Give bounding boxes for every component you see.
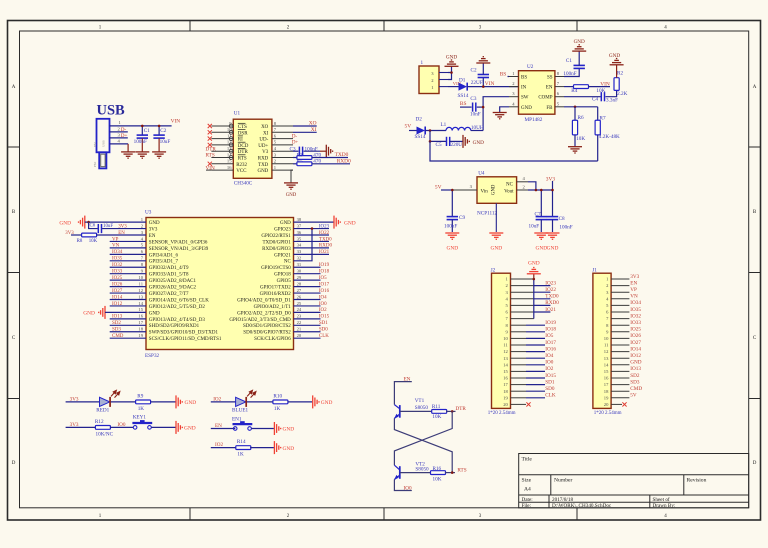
svg-text:L1: L1 [441,122,447,128]
svg-text:GND: GND [321,400,333,406]
svg-text:VIN: VIN [600,81,610,87]
svg-text:GPIO18: GPIO18 [274,273,291,278]
J1 pin 2 [606,283,629,288]
junction (D2/L1/C5) [429,129,432,132]
svg-text:C2: C2 [160,128,166,134]
svg-text:RTS: RTS [457,468,466,474]
svg-text:C1: C1 [566,58,572,64]
svg-text:U1: U1 [234,111,241,117]
wire U1 GND [291,170,293,183]
svg-text:EN: EN [630,280,637,286]
svg-text:15: 15 [604,369,609,374]
svg-text:R4: R4 [571,88,577,94]
capacitor C1 [134,126,151,152]
svg-text:V3: V3 [262,150,269,155]
svg-text:GPIO21: GPIO21 [274,253,291,258]
svg-text:J1: J1 [592,268,597,274]
IC U1 CH340C body [233,111,272,187]
svg-text:35: 35 [297,236,302,241]
svg-text:C8: C8 [559,216,565,222]
svg-text:12: 12 [138,288,143,293]
svg-text:D: D [12,461,16,466]
U3 pin 15 GND [138,307,160,316]
svg-text:R232: R232 [236,163,247,168]
svg-text:21: 21 [297,327,302,332]
svg-text:IO35: IO35 [112,257,123,262]
svg-text:IO25: IO25 [630,327,641,333]
U3 pin 1 GND [141,217,160,226]
svg-text:GND: GND [535,246,547,252]
J2 pin 20 [503,402,526,407]
USB pin 2 D- [110,126,128,133]
svg-text:IO16: IO16 [545,346,556,352]
U3 pin 32 NC [284,256,302,265]
svg-text:Drawn By:: Drawn By: [653,503,676,509]
svg-text:RXD0: RXD0 [337,159,351,165]
no-connect X (U1 pin 10) [208,130,212,134]
svg-text:FB: FB [546,106,553,111]
svg-text:GPIO26/AD2_9/DAC2: GPIO26/AD2_9/DAC2 [149,286,197,291]
ground (C2 power, above) [476,57,490,63]
svg-text:IO2: IO2 [545,366,553,372]
svg-text:IO25: IO25 [112,276,123,281]
wire VT2 emitter to IO0 [394,480,411,491]
svg-text:GND: GND [492,184,497,195]
svg-text:VP: VP [112,237,119,242]
svg-text:VT1: VT1 [415,398,425,404]
wire U3 pin 13 [110,299,146,301]
svg-text:IO13: IO13 [630,366,641,372]
svg-text:GND: GND [283,446,295,452]
wire U3 pin 8 [110,266,146,268]
wire U3 pin 24 [294,311,321,313]
svg-text:IO22: IO22 [545,287,556,293]
svg-text:5V: 5V [435,185,442,191]
U3 pin 25 GPIO0/AD2_1/T1 [254,301,302,310]
U3 pin 14 GPIO12/AD2_5/T5/SD_D2 [138,301,205,310]
U3 pin 26 GPIO4/AD2_0/T0/SD_D1 [237,294,302,303]
svg-text:17: 17 [503,382,508,387]
resistor R5 470 [293,159,350,166]
svg-text:10uF: 10uF [529,224,540,230]
svg-text:28: 28 [297,281,302,286]
ground (C3, sideways) [326,145,332,158]
J2 pin 9 [506,329,545,334]
svg-text:2017/8/18: 2017/8/18 [552,497,573,503]
capacitor C3 10nF (bootstrap) [460,96,483,118]
svg-text:R8: R8 [77,239,83,244]
svg-text:SWP/SD3/GPIO10/SD_D3/TXD1: SWP/SD3/GPIO10/SD_D3/TXD1 [149,331,219,336]
svg-text:11: 11 [503,343,508,348]
U3 pin 13 GPIO14/AD2_6/T6/SD_CLK [138,294,209,303]
wire KEY1 to gnd [151,426,175,428]
wire U3 pin 35 [294,240,330,242]
U1 pin 2 TXD [258,159,293,168]
svg-text:SD0/SD1/GPIO8/CTS2: SD0/SD1/GPIO8/CTS2 [243,324,291,329]
svg-text:10uF: 10uF [103,224,113,229]
svg-text:KEY1: KEY1 [133,414,147,420]
wire NC join Vout [528,182,536,190]
svg-text:10uF: 10uF [160,139,171,145]
svg-text:GND: GND [344,220,356,226]
svg-text:R3: R3 [297,152,303,158]
U3 pin 11 GPIO26/AD2_9/DAC2 [139,281,197,290]
svg-text:GND: GND [59,220,71,226]
IC U2 MP1482 body [519,64,555,123]
svg-text:1K: 1K [138,406,145,412]
svg-text:CLK: CLK [545,393,556,399]
svg-text:XO: XO [309,121,317,127]
svg-text:SS: SS [547,76,553,81]
wire U3 pin 28 [294,286,321,288]
wire U3 pin 4 [110,240,146,242]
svg-text:GND: GND [283,427,295,433]
svg-text:12: 12 [227,140,232,145]
svg-text:GND: GND [446,246,458,252]
svg-text:CLK: CLK [319,334,329,339]
svg-text:A: A [12,85,16,90]
wire U3 pin 34 [294,247,330,249]
svg-text:GND: GND [185,400,197,406]
svg-text:GPIO0/AD2_1/T1: GPIO0/AD2_1/T1 [254,305,292,310]
svg-text:GPI34/AD1_6: GPI34/AD1_6 [149,253,179,258]
U1 pin 16 VCC [211,165,247,174]
svg-text:D+: D+ [121,133,128,139]
svg-text:100nF: 100nF [444,224,457,230]
svg-text:27: 27 [297,288,302,293]
junction (NC/IO23) [311,227,314,230]
svg-text:SD3: SD3 [630,379,640,385]
U2 pin 5 FB [546,101,564,111]
svg-text:RXD0/GPIO3: RXD0/GPIO3 [262,247,291,252]
wire U3 pin1 GND [85,221,146,223]
svg-text:VN: VN [630,294,638,300]
resistor R12 10K/NC [66,419,134,438]
wire BS stub [508,76,510,78]
svg-text:SD0/SD0/GPIO7/RTS2: SD0/SD0/GPIO7/RTS2 [243,331,291,336]
svg-text:EN: EN [546,86,553,91]
junction (C6 tap) [87,221,90,224]
LED BLUE1 [232,390,256,413]
U1 pin 13 DTR [211,146,248,155]
U3 pin 30 GPIO18 [274,269,302,278]
ground (KEY1, sideways) [176,421,196,434]
svg-text:3V3: 3V3 [630,274,639,280]
svg-text:10: 10 [138,275,143,280]
svg-text:IO34: IO34 [630,300,641,306]
no-connect X (U1 pin 15) [208,162,212,166]
svg-text:TXD0/GPIO1: TXD0/GPIO1 [262,240,291,245]
junction (J2 pin1 gnd) [533,278,536,281]
svg-text:XI: XI [311,127,317,133]
svg-text:C5: C5 [436,142,442,148]
wire Vout to 3V3 [528,189,553,191]
svg-text:GND: GND [630,360,641,366]
inductor L1 10UH [441,122,484,131]
svg-text:J2: J2 [491,268,496,274]
svg-text:3.3nF: 3.3nF [606,97,618,103]
U3 pin 38 GND [280,217,302,226]
J1 pin 8 [606,323,629,328]
svg-text:10: 10 [503,336,508,341]
U1 pin 6 UD- [259,133,293,142]
wire U3 pin 5 [110,247,146,249]
svg-text:GPI35/AD1_7: GPI35/AD1_7 [149,260,179,265]
svg-text:RTS: RTS [206,153,215,159]
svg-text:GND: GND [609,53,620,59]
J1 pin 6 [606,310,629,315]
svg-text:IO15: IO15 [319,315,330,320]
svg-text:10nF: 10nF [470,111,481,117]
ground (C5, sideways) [463,135,484,148]
capacitor C8 100nF [547,190,573,232]
junction (NC/Vout) [535,189,538,192]
svg-text:SD0: SD0 [545,386,555,392]
svg-text:UD+: UD+ [258,144,268,149]
U3 pin 33 GPIO21 [274,249,302,258]
svg-text:GPIO14/AD2_6/T6/SD_CLK: GPIO14/AD2_6/T6/SD_CLK [149,298,209,303]
svg-text:100nF: 100nF [563,71,576,77]
ground (R14, sideways) [274,441,294,454]
U1 pin 9 CTS [211,121,247,130]
J2 pin 17 [503,382,545,387]
svg-text:VIN: VIN [485,81,495,87]
wire GND pin U2 [500,107,509,113]
svg-text:470: 470 [313,159,321,165]
svg-text:S8050: S8050 [415,467,429,473]
ground (U1 pin1) [284,183,298,198]
wire U3 pin 36 [294,234,330,236]
J1 pin 9 [606,329,629,334]
capacitor C6 10uF [89,222,146,233]
U3 pin 27 GPIO16/RXD2 [260,288,302,297]
svg-text:GND: GND [280,221,291,226]
svg-text:SCS/CLK/GPIO11/SD_CMD/RTS1: SCS/CLK/GPIO11/SD_CMD/RTS1 [149,337,222,342]
J2 pin 5 [506,303,551,308]
U1 pin 7 XI [263,127,293,136]
junction (DTR) [451,410,454,413]
resistor R2 2.2K [614,65,628,97]
wire U3 pin 16 [110,318,146,320]
svg-text:IO23: IO23 [545,280,556,286]
U3 pin 20 SCK/CLK/GPIO6 [254,333,302,342]
J2 pin 18 [503,389,545,394]
svg-text:GPIO27/AD2_7/T7: GPIO27/AD2_7/T7 [149,292,189,297]
svg-text:4.2K-48K: 4.2K-48K [599,134,620,140]
J2 pin 14 [503,362,545,367]
U3 pin 9 GPIO33/AD1_5/T8 [141,269,189,278]
svg-text:12: 12 [503,349,508,354]
svg-text:13: 13 [138,294,143,299]
svg-text:25: 25 [297,301,302,306]
svg-text:UD-: UD- [259,138,268,143]
U2 pin 8 SS [547,71,564,81]
U3 pin 7 GPI35/AD1_7 [141,256,179,265]
svg-text:GPIO5: GPIO5 [277,279,292,284]
junction (P1 gnd) [450,71,453,74]
svg-text:SW: SW [521,96,529,101]
svg-text:RED1: RED1 [96,408,109,414]
svg-text:VIN: VIN [171,119,181,125]
svg-text:IO34: IO34 [112,250,123,255]
J2 pin 1 [506,277,534,282]
J2 pin 19 [503,395,545,400]
junction (C2/VIN) [158,125,161,128]
U3 pin 2 3V3 [141,223,158,232]
capacitor C2 [153,126,170,152]
svg-text:C4: C4 [592,97,598,103]
wire U3 pin 12 [110,292,146,294]
svg-text:R10: R10 [273,393,282,399]
wire U3 pin 30 [294,273,321,275]
resistor R16 10K [400,466,455,482]
U3 pin 18 SWP/SD3/GPIO10/SD_D3/TXD1 [138,327,218,336]
svg-text:R11: R11 [432,404,441,410]
wire EN to EN1 [211,428,236,430]
U2 pin 4 GND [509,101,532,111]
svg-text:13: 13 [503,356,508,361]
ground (C2) [152,152,166,158]
J1 pin 5 [606,303,629,308]
svg-text:37: 37 [297,223,302,228]
svg-text:IO5: IO5 [545,333,553,339]
svg-text:24: 24 [297,307,302,312]
svg-text:IO0: IO0 [404,485,412,491]
svg-text:IO18: IO18 [319,270,330,275]
svg-text:15: 15 [503,369,508,374]
U2 pin 7 EN [546,81,564,91]
svg-text:GND: GND [446,54,457,60]
U1 pin 5 UD+ [258,140,293,149]
svg-text:14: 14 [227,152,232,157]
svg-text:R6: R6 [578,115,584,121]
svg-text:Vin: Vin [481,189,489,194]
wire U3 pin 21 [294,331,321,333]
J1 pin 17 [604,382,630,387]
svg-text:SD3: SD3 [112,328,121,333]
wire U3 pin 33 [294,253,330,255]
svg-text:36: 36 [297,230,302,235]
J1 pin 14 [604,362,630,367]
U3 pin 36 GPIO22/RTS1 [261,230,302,239]
svg-text:1K: 1K [237,452,244,458]
wire U3 pin 23 [294,318,321,320]
svg-text:33: 33 [297,249,302,254]
svg-text:26: 26 [297,294,302,299]
U1 pin 1 GND [257,165,293,174]
svg-text:SS14: SS14 [458,93,469,99]
J2 pin 15 [503,369,545,374]
transistor VT1 S8050 [394,398,428,419]
resistor R6 10K [572,107,585,147]
connector J1 body [592,268,621,416]
svg-text:GPIO16/RXD2: GPIO16/RXD2 [260,292,292,297]
wire U3 pin 26 [294,299,321,301]
svg-text:RXD: RXD [258,157,269,162]
svg-text:SD2: SD2 [630,373,640,379]
svg-text:10K: 10K [89,239,98,244]
wire U3 pin 31 [294,266,321,268]
svg-text:IO14: IO14 [630,346,641,352]
svg-text:CMD: CMD [630,386,642,392]
USB pin 3 D+ [110,132,128,139]
wire J2 gnd bus [533,279,535,319]
ground (J2, above) [527,260,541,279]
svg-text:IO12: IO12 [630,353,641,359]
svg-text:18: 18 [503,389,508,394]
svg-text:Number: Number [554,478,572,484]
LED RED1 [96,390,120,413]
resistor R7 4.2K-48K [595,107,620,161]
svg-text:IO12: IO12 [112,302,123,307]
title block [519,454,749,508]
J2 pin 11 [503,343,545,348]
ground (C8, bright) [546,233,560,252]
ground (R6) [568,147,582,153]
U3 pin 22 SD0/SD1/GPIO8/CTS2 [243,320,302,329]
U1 pin 4 V3 [262,146,293,155]
wire 3V3 to RED1 [66,401,100,403]
svg-text:15: 15 [138,307,143,312]
wire XI [293,131,317,133]
wire IO2 to BLUE1 [211,401,236,403]
junction (C8/Vout) [551,189,554,192]
svg-text:GPIO13/AD2_4/T4/SD_D3: GPIO13/AD2_4/T4/SD_D3 [149,318,206,323]
wire U3 pin 19 [110,337,146,339]
wire U3 pin 27 [294,292,321,294]
svg-text:IO5: IO5 [319,276,327,281]
U1 pin 10 DSR [211,127,248,136]
U3 pin 37 GPIO23 [274,223,302,232]
svg-text:GND: GND [257,169,268,174]
svg-text:Vout: Vout [504,189,514,194]
U3 pin 21 SD0/SD0/GPIO7/RTS2 [243,327,302,336]
J2 pin 10 [503,336,545,341]
svg-text:1: 1 [421,60,424,66]
ground (R2, above) [609,53,624,65]
svg-text:18: 18 [604,389,609,394]
J1 pin 19 [604,395,630,400]
ground (USB pin4) [121,152,135,158]
ground (C1 SS, above) [572,39,586,51]
U1 pin 8 XO [261,121,293,130]
svg-text:220U: 220U [451,142,463,148]
svg-text:GND: GND [528,260,540,266]
svg-text:C3: C3 [290,146,296,152]
svg-text:5V: 5V [630,393,637,399]
wire U3 pin 37 [294,228,330,230]
no-connect X (J1 pin20) [622,402,626,406]
ground (U3 pin38, bright sideways) [334,216,356,229]
J1 pin 15 [604,369,630,374]
svg-text:IO32: IO32 [630,313,641,319]
svg-text:R2: R2 [617,71,623,77]
ground (U3 pin1 left) [59,216,84,229]
svg-text:IO18: IO18 [545,327,556,333]
capacitor C3 (U1 V3) [290,146,327,156]
U1 pin 15 R232 [211,159,247,168]
U4 pin 4 NC [517,176,528,182]
svg-text:1K: 1K [274,406,281,412]
svg-text:R12: R12 [95,419,104,425]
svg-text:20: 20 [297,333,302,338]
resistor R14 1K [211,439,274,458]
ground (EN1, sideways) [274,422,294,435]
wire U3 pin 11 [110,286,146,288]
svg-text:GND: GND [473,140,484,146]
U3 pin 34 RXD0/GPIO3 [262,243,302,252]
U3 pin 23 GPIO15/AD2_3/T3/SD_CMD [229,314,302,323]
